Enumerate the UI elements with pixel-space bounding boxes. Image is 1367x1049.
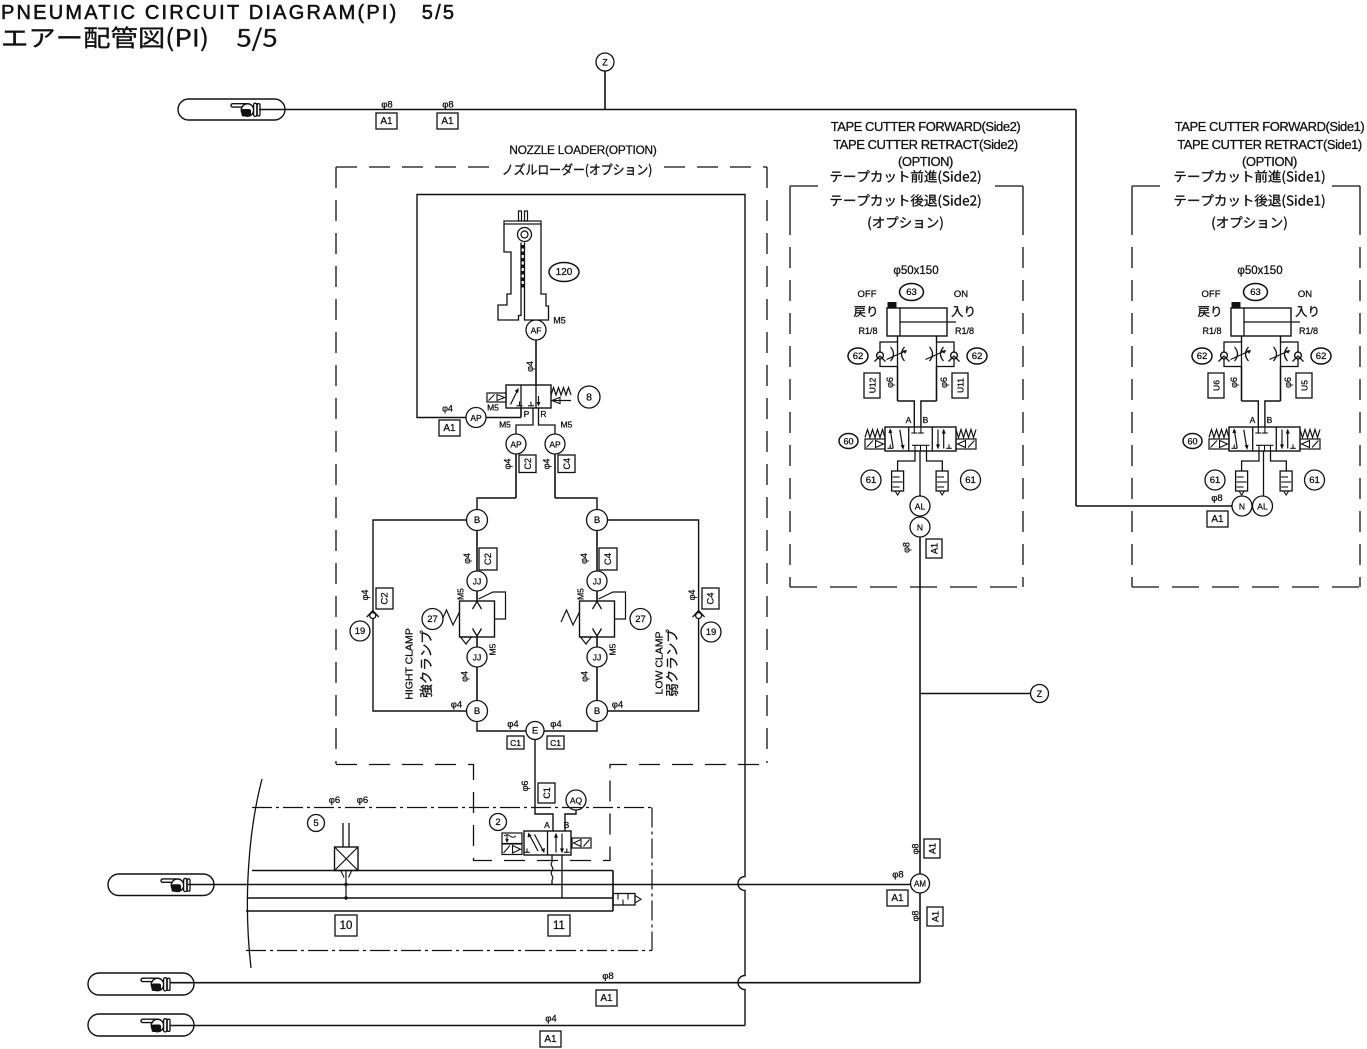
muffler 61 left bbox=[892, 471, 904, 495]
balloon 61 right bbox=[961, 470, 981, 490]
tape cutter title jp1 bbox=[1175, 170, 1325, 184]
label phi8 rot above AM bbox=[911, 844, 921, 855]
label iri jp bbox=[952, 306, 974, 317]
svg-text:φ4: φ4 bbox=[542, 459, 552, 470]
svg-text:62: 62 bbox=[972, 351, 983, 362]
svg-text:AF: AF bbox=[531, 326, 542, 336]
tape cutter title en3 bbox=[1242, 154, 1297, 169]
svg-text:TAPE CUTTER FORWARD(Side2): TAPE CUTTER FORWARD(Side2) bbox=[831, 119, 1021, 134]
label OFF bbox=[858, 289, 877, 300]
label B port bbox=[1267, 415, 1273, 425]
node Z2 bbox=[1031, 685, 1049, 703]
svg-text:C1: C1 bbox=[510, 738, 521, 748]
svg-text:B: B bbox=[923, 415, 929, 425]
svg-text:120: 120 bbox=[556, 267, 573, 278]
svg-text:φ4: φ4 bbox=[579, 553, 589, 564]
pipe right to valve B bbox=[921, 367, 937, 428]
svg-text:N: N bbox=[1239, 502, 1245, 512]
nozzle loader dashed box right edge bbox=[766, 167, 768, 763]
svg-text:M5: M5 bbox=[487, 403, 499, 413]
wire JJ2 to B2 right bbox=[596, 667, 598, 701]
label C4 box right1 bbox=[599, 548, 617, 570]
label phi4 rot left2 bbox=[460, 671, 470, 682]
valve 60 body bbox=[1209, 427, 1320, 451]
check valve 19 left bbox=[367, 611, 379, 619]
label ON bbox=[954, 289, 968, 300]
clamp valve 27 left bbox=[441, 592, 506, 644]
svg-text:10: 10 bbox=[340, 920, 353, 932]
label R bbox=[540, 409, 546, 419]
wire E to valve2 bbox=[535, 740, 553, 832]
svg-text:C2: C2 bbox=[483, 553, 494, 565]
label modori jp bbox=[854, 306, 876, 317]
label R18 right bbox=[1299, 326, 1318, 336]
label phi8 side1 bbox=[1211, 493, 1222, 504]
balloon 62 right bbox=[967, 348, 987, 364]
wire valve2 drop B bbox=[561, 855, 563, 898]
svg-text:C4: C4 bbox=[603, 553, 614, 565]
tape cutter dashed box (Side1 bbox=[1132, 186, 1360, 587]
machine boundary bottom dashdot bbox=[246, 950, 652, 952]
svg-text:φ4: φ4 bbox=[460, 671, 470, 682]
machine boundary break wave bbox=[247, 779, 262, 968]
svg-text:φ8: φ8 bbox=[381, 100, 392, 111]
svg-text:φ4: φ4 bbox=[612, 700, 623, 711]
speed controller 62 left bbox=[875, 342, 908, 367]
label phi4 E right bbox=[550, 719, 561, 730]
label phi6 comp5 a bbox=[329, 795, 340, 806]
svg-text:M5: M5 bbox=[576, 588, 586, 600]
balloon 19 left bbox=[350, 621, 370, 641]
nozzle loader dashed box bottom edge with notch bbox=[336, 765, 767, 861]
svg-text:φ6: φ6 bbox=[1283, 377, 1293, 388]
svg-text:TAPE CUTTER FORWARD(Side1): TAPE CUTTER FORWARD(Side1) bbox=[1175, 119, 1365, 134]
svg-text:(OPTION): (OPTION) bbox=[898, 154, 953, 169]
svg-text:B: B bbox=[474, 706, 480, 717]
label 11 box bbox=[548, 915, 570, 936]
label HIGHT CLAMP bbox=[404, 628, 416, 700]
svg-text:M5: M5 bbox=[608, 643, 618, 655]
wire EA to muffler bbox=[1242, 451, 1259, 471]
bypass wire right bbox=[608, 520, 699, 711]
wire valve8 R drop bbox=[539, 408, 556, 434]
svg-text:2: 2 bbox=[495, 817, 500, 828]
pipe loop phi4 riser with hops bbox=[417, 195, 745, 1026]
label phi4 bottom bbox=[545, 1014, 556, 1025]
balloon 62 left bbox=[848, 348, 868, 364]
node B bottom right bbox=[587, 701, 608, 722]
label A1 box bottom 2 bbox=[540, 1031, 561, 1047]
svg-text:61: 61 bbox=[965, 475, 976, 486]
label M5 at AF bbox=[553, 316, 566, 326]
label phi8 rot below AM bbox=[911, 911, 921, 922]
label 10 box bbox=[335, 915, 357, 936]
label C4 box feed bbox=[558, 455, 575, 473]
pipe right to valve B bbox=[1265, 367, 1281, 428]
pipe cyl right port bbox=[1280, 336, 1282, 342]
svg-text:R1/8: R1/8 bbox=[858, 326, 877, 336]
svg-text:φ6: φ6 bbox=[520, 781, 530, 792]
wire AQ to valve2 bbox=[565, 810, 576, 831]
wire AP to P port bbox=[486, 408, 521, 418]
valve 2 body bbox=[502, 831, 591, 855]
node AF bbox=[526, 320, 546, 340]
svg-text:R1/8: R1/8 bbox=[1299, 326, 1318, 336]
nozzle unit 120 bbox=[498, 211, 549, 320]
node B bottom left bbox=[467, 701, 488, 722]
svg-text:φ4: φ4 bbox=[550, 719, 561, 730]
svg-text:φ6: φ6 bbox=[885, 377, 895, 388]
nozzle loader title en bbox=[509, 143, 656, 157]
wire B2 left to E bbox=[477, 722, 526, 732]
label phi4 valve8 feed bbox=[442, 404, 453, 414]
wire phi8 bottom bbox=[170, 893, 920, 983]
label P bbox=[524, 409, 530, 419]
balloon 61 left bbox=[861, 470, 881, 490]
wire branch to Z2 bbox=[920, 693, 1031, 695]
muffler 61 right bbox=[1280, 471, 1292, 495]
wire rod line to AM bbox=[188, 884, 911, 886]
speed controller 62 right bbox=[926, 342, 960, 367]
svg-text:NOZZLE LOADER(OPTION): NOZZLE LOADER(OPTION) bbox=[509, 143, 656, 157]
balloon 62 right bbox=[1311, 348, 1331, 364]
label phi8 bottom bbox=[602, 971, 613, 982]
label low clamp jp bbox=[666, 630, 678, 697]
hand pointer callout 1 bbox=[178, 99, 285, 120]
svg-text:φ50x150: φ50x150 bbox=[1237, 265, 1282, 277]
svg-text:5: 5 bbox=[313, 818, 318, 829]
svg-text:M5: M5 bbox=[456, 588, 466, 600]
tape cutter title jp1 bbox=[831, 170, 981, 184]
svg-text:OFF: OFF bbox=[1202, 289, 1221, 300]
svg-text:62: 62 bbox=[1197, 351, 1208, 362]
balloon 60 bbox=[1183, 434, 1202, 449]
label C2 box left1 bbox=[479, 548, 497, 570]
label B port bbox=[923, 415, 929, 425]
svg-text:φ8: φ8 bbox=[902, 542, 912, 553]
svg-text:N: N bbox=[917, 523, 923, 533]
valve 60 body bbox=[865, 427, 976, 451]
label U box right bbox=[952, 373, 968, 398]
svg-text:AP: AP bbox=[510, 440, 522, 450]
tape cutter title jp3 bbox=[868, 216, 942, 230]
node AP c4 bbox=[545, 434, 565, 454]
svg-text:φ8: φ8 bbox=[892, 870, 903, 881]
label phi50x150 bbox=[1237, 265, 1282, 277]
hand pointer callout 2 bbox=[108, 874, 214, 896]
balloon 63 bbox=[900, 284, 924, 301]
wire JJ to valve left bbox=[476, 591, 478, 601]
label M5 rot right top bbox=[576, 588, 586, 600]
svg-text:φ8: φ8 bbox=[602, 971, 613, 982]
svg-text:φ8: φ8 bbox=[911, 911, 921, 922]
wire to side1 N bbox=[1076, 505, 1232, 507]
svg-text:A1: A1 bbox=[380, 116, 393, 127]
svg-text:C4: C4 bbox=[562, 458, 572, 470]
label phi4 rot c4 feed bbox=[542, 459, 552, 470]
wire right riser to side1 bbox=[1075, 110, 1077, 507]
svg-text:A1: A1 bbox=[600, 993, 613, 1004]
node N side1 bbox=[1232, 496, 1252, 516]
svg-text:M5: M5 bbox=[488, 643, 498, 655]
svg-text:U6: U6 bbox=[1212, 380, 1222, 391]
wire valve8 A drop bbox=[516, 408, 533, 434]
svg-text:φ4: φ4 bbox=[545, 1014, 556, 1025]
svg-text:TAPE CUTTER RETRACT(Side2): TAPE CUTTER RETRACT(Side2) bbox=[833, 137, 1018, 152]
svg-text:φ50x150: φ50x150 bbox=[893, 265, 938, 277]
label C1 box E line bbox=[538, 783, 555, 803]
balloon 8 bbox=[578, 386, 600, 408]
svg-text:60: 60 bbox=[843, 437, 853, 447]
cylinder 63 body bbox=[1231, 308, 1300, 336]
node AP valve8 inlet bbox=[466, 408, 486, 428]
label phi4 rot check right bbox=[687, 590, 697, 601]
label A1 hbox left of AM bbox=[887, 890, 908, 906]
component 5 lock unit bbox=[335, 823, 359, 900]
svg-text:A1: A1 bbox=[443, 423, 456, 434]
wire B to JJ left bbox=[476, 531, 478, 572]
svg-text:AL: AL bbox=[1257, 502, 1268, 512]
svg-text:C4: C4 bbox=[706, 592, 717, 604]
wire EB to muffler bbox=[1271, 451, 1287, 471]
tape cutter title en2 bbox=[1177, 137, 1362, 152]
label modori jp bbox=[1198, 306, 1220, 317]
svg-text:63: 63 bbox=[1250, 287, 1261, 298]
svg-text:φ6: φ6 bbox=[329, 795, 340, 806]
label M5 right drop bbox=[561, 420, 573, 430]
title line 1 bbox=[1, 2, 456, 24]
label M5 rot right bottom bbox=[608, 643, 618, 655]
svg-text:B: B bbox=[594, 515, 600, 526]
svg-text:62: 62 bbox=[1316, 351, 1327, 362]
svg-text:C1: C1 bbox=[542, 787, 552, 799]
svg-text:φ4: φ4 bbox=[360, 590, 370, 601]
svg-text:U12: U12 bbox=[868, 377, 878, 393]
node JJ right top bbox=[587, 571, 607, 591]
wire valve to JJ2 right bbox=[596, 637, 598, 647]
title line 2 japanese bbox=[3, 26, 276, 51]
svg-text:AQ: AQ bbox=[570, 796, 583, 806]
label R18 left bbox=[1202, 326, 1221, 336]
label M5 rot left top bbox=[456, 588, 466, 600]
svg-text:φ4: φ4 bbox=[580, 671, 590, 682]
svg-text:61: 61 bbox=[866, 475, 877, 486]
label M5 valve8 sol bbox=[487, 403, 499, 413]
svg-text:61: 61 bbox=[1210, 475, 1221, 486]
label A1 vbox below AM bbox=[927, 907, 943, 926]
svg-text:A1: A1 bbox=[891, 893, 904, 904]
pipe left to valve A bbox=[1242, 367, 1259, 428]
svg-text:R: R bbox=[540, 409, 546, 419]
label C1 box E left bbox=[507, 736, 524, 749]
pipe cyl left port bbox=[897, 336, 899, 342]
svg-text:φ6: φ6 bbox=[357, 795, 368, 806]
label R18 left bbox=[858, 326, 877, 336]
svg-text:19: 19 bbox=[355, 626, 366, 637]
svg-text:φ4: φ4 bbox=[507, 719, 518, 730]
label A1 vbox side2 bbox=[926, 539, 942, 558]
bypass wire left bbox=[373, 520, 467, 711]
svg-text:JJ: JJ bbox=[593, 653, 602, 663]
svg-text:φ6: φ6 bbox=[1229, 377, 1239, 388]
svg-text:M5: M5 bbox=[553, 316, 566, 326]
label phi8 b bbox=[442, 100, 453, 111]
svg-text:62: 62 bbox=[853, 351, 864, 362]
svg-text:φ4: φ4 bbox=[503, 459, 513, 470]
svg-text:ON: ON bbox=[1298, 289, 1312, 300]
label phi6 rot left bbox=[885, 377, 895, 388]
label phi4 rot c2 feed bbox=[503, 459, 513, 470]
svg-text:TAPE CUTTER RETRACT(Side1): TAPE CUTTER RETRACT(Side1) bbox=[1177, 137, 1362, 152]
balloon 5 bbox=[308, 815, 325, 832]
label A1 vbox above AM bbox=[924, 839, 940, 858]
svg-text:(OPTION): (OPTION) bbox=[1242, 154, 1297, 169]
svg-text:B: B bbox=[1267, 415, 1273, 425]
balloon 27 right bbox=[630, 609, 651, 630]
svg-text:A: A bbox=[544, 820, 550, 830]
cylinder 63 body bbox=[887, 308, 956, 336]
label C1 box E right bbox=[547, 736, 564, 749]
node AL side2 bbox=[910, 496, 930, 516]
node N side2 bbox=[910, 517, 930, 537]
svg-text:AL: AL bbox=[915, 502, 926, 512]
label A1 box b bbox=[437, 113, 458, 129]
wire valve2 drop A squiggle bbox=[551, 855, 553, 885]
svg-text:LOW CLAMP: LOW CLAMP bbox=[654, 631, 666, 694]
tape cutter title jp2 bbox=[1175, 194, 1325, 208]
nozzle loader dashed box top edge bbox=[336, 166, 767, 168]
label phi4 E left bbox=[507, 719, 518, 730]
wire B2 right to E bbox=[544, 722, 597, 732]
balloon 19 right bbox=[701, 622, 721, 642]
label iri jp bbox=[1296, 306, 1318, 317]
balloon 60 bbox=[839, 434, 858, 449]
svg-text:A1: A1 bbox=[930, 543, 940, 554]
wire AF to valve 8 bbox=[535, 340, 537, 385]
node JJ left bottom bbox=[467, 647, 487, 667]
svg-text:PNEUMATIC CIRCUIT DIAGRAM(PI): PNEUMATIC CIRCUIT DIAGRAM(PI) 5/5 bbox=[1, 2, 456, 24]
svg-text:E: E bbox=[532, 726, 538, 737]
node B top right bbox=[587, 510, 608, 531]
label U box left bbox=[1208, 373, 1224, 398]
svg-text:AM: AM bbox=[914, 880, 926, 889]
label phi4 B bottom left bbox=[451, 700, 462, 711]
cylinder slide unit 10-11 bbox=[246, 871, 641, 912]
nozzle loader title jp bbox=[503, 163, 651, 177]
speed controller 62 right bbox=[1270, 342, 1304, 367]
svg-text:φ4: φ4 bbox=[451, 700, 462, 711]
wire AP c4 down bbox=[555, 454, 597, 510]
label phi6 rot left bbox=[1229, 377, 1239, 388]
label phi4 rot right1 bbox=[579, 553, 589, 564]
label phi6 rot right bbox=[1283, 377, 1293, 388]
label phi4 rot left1 bbox=[462, 553, 472, 564]
svg-text:Z: Z bbox=[602, 58, 608, 68]
nozzle loader dashed box left edge bbox=[335, 167, 337, 764]
svg-text:61: 61 bbox=[1309, 475, 1320, 486]
svg-text:φ8: φ8 bbox=[911, 844, 921, 855]
label phi4 rot check left bbox=[360, 590, 370, 601]
svg-text:φ4: φ4 bbox=[525, 361, 535, 372]
wire AP c2 down bbox=[477, 454, 516, 510]
svg-text:φ4: φ4 bbox=[462, 553, 472, 564]
tape cutter title jp3 bbox=[1212, 216, 1286, 230]
svg-text:C1: C1 bbox=[550, 738, 561, 748]
svg-text:φ8: φ8 bbox=[442, 100, 453, 111]
tape cutter title jp2 bbox=[831, 194, 981, 208]
label phi50x150 bbox=[893, 265, 938, 277]
wire phi4 bottom bbox=[170, 1025, 745, 1027]
label phi6 rot E line bbox=[520, 781, 530, 792]
svg-text:60: 60 bbox=[1187, 437, 1197, 447]
label ON bbox=[1298, 289, 1312, 300]
label A port bbox=[1250, 415, 1256, 425]
label phi8 left of AM bbox=[892, 870, 903, 881]
label B valve2 bbox=[564, 820, 570, 830]
check valve 19 right bbox=[693, 611, 705, 619]
clamp valve 27 right bbox=[561, 592, 626, 644]
label phi4 rot right2 bbox=[580, 671, 590, 682]
label R18 right bbox=[955, 326, 974, 336]
svg-text:B: B bbox=[474, 515, 480, 526]
cylinder 63 magnet bbox=[1232, 302, 1241, 308]
label phi8 rot side2 bbox=[902, 542, 912, 553]
label A1 box a bbox=[376, 113, 397, 129]
svg-text:HIGHT CLAMP: HIGHT CLAMP bbox=[404, 628, 416, 700]
node JJ left top bbox=[467, 571, 487, 591]
svg-text:B: B bbox=[564, 820, 570, 830]
tape cutter dashed box (Side2 bbox=[790, 186, 1023, 587]
balloon 61 left bbox=[1205, 470, 1225, 490]
svg-text:R1/8: R1/8 bbox=[1202, 326, 1221, 336]
wire EA to muffler bbox=[898, 451, 915, 471]
label phi4 rot AF bbox=[525, 361, 535, 372]
svg-text:11: 11 bbox=[553, 920, 565, 932]
svg-text:U11: U11 bbox=[956, 378, 966, 393]
balloon 27 left bbox=[422, 609, 443, 630]
node Z top stem bbox=[604, 71, 606, 110]
svg-text:OFF: OFF bbox=[858, 289, 877, 300]
cylinder 63 magnet bbox=[888, 302, 897, 308]
hand pointer callout 3 bbox=[88, 973, 194, 995]
wire main supply phi8 top bbox=[259, 109, 1076, 111]
node AM bbox=[911, 874, 930, 893]
label LOW CLAMP bbox=[654, 631, 666, 694]
svg-text:M5: M5 bbox=[561, 420, 573, 430]
wire P exhaust to AL bbox=[919, 451, 921, 496]
pipe left to valve A bbox=[898, 367, 915, 428]
node AP c2 bbox=[506, 434, 526, 454]
svg-text:AP: AP bbox=[470, 413, 482, 423]
hand pointer callout 4 bbox=[88, 1014, 194, 1036]
label C2 box check left bbox=[376, 588, 393, 609]
node AL side1 bbox=[1253, 496, 1273, 516]
pipe cyl right port bbox=[936, 336, 938, 342]
wire EB to muffler bbox=[927, 451, 943, 471]
svg-text:B: B bbox=[594, 706, 600, 717]
label A valve2 bbox=[544, 820, 550, 830]
wire JJ2 to B2 left bbox=[476, 667, 478, 701]
svg-text:M5: M5 bbox=[499, 420, 511, 430]
svg-text:A1: A1 bbox=[928, 843, 938, 854]
svg-text:R1/8: R1/8 bbox=[955, 326, 974, 336]
node Z top bbox=[596, 53, 614, 71]
label A1 box bottom bbox=[596, 990, 617, 1006]
label U box right bbox=[1296, 373, 1312, 398]
svg-text:63: 63 bbox=[906, 287, 917, 298]
wire JJ to valve right bbox=[596, 591, 598, 601]
balloon 62 left bbox=[1192, 348, 1212, 364]
